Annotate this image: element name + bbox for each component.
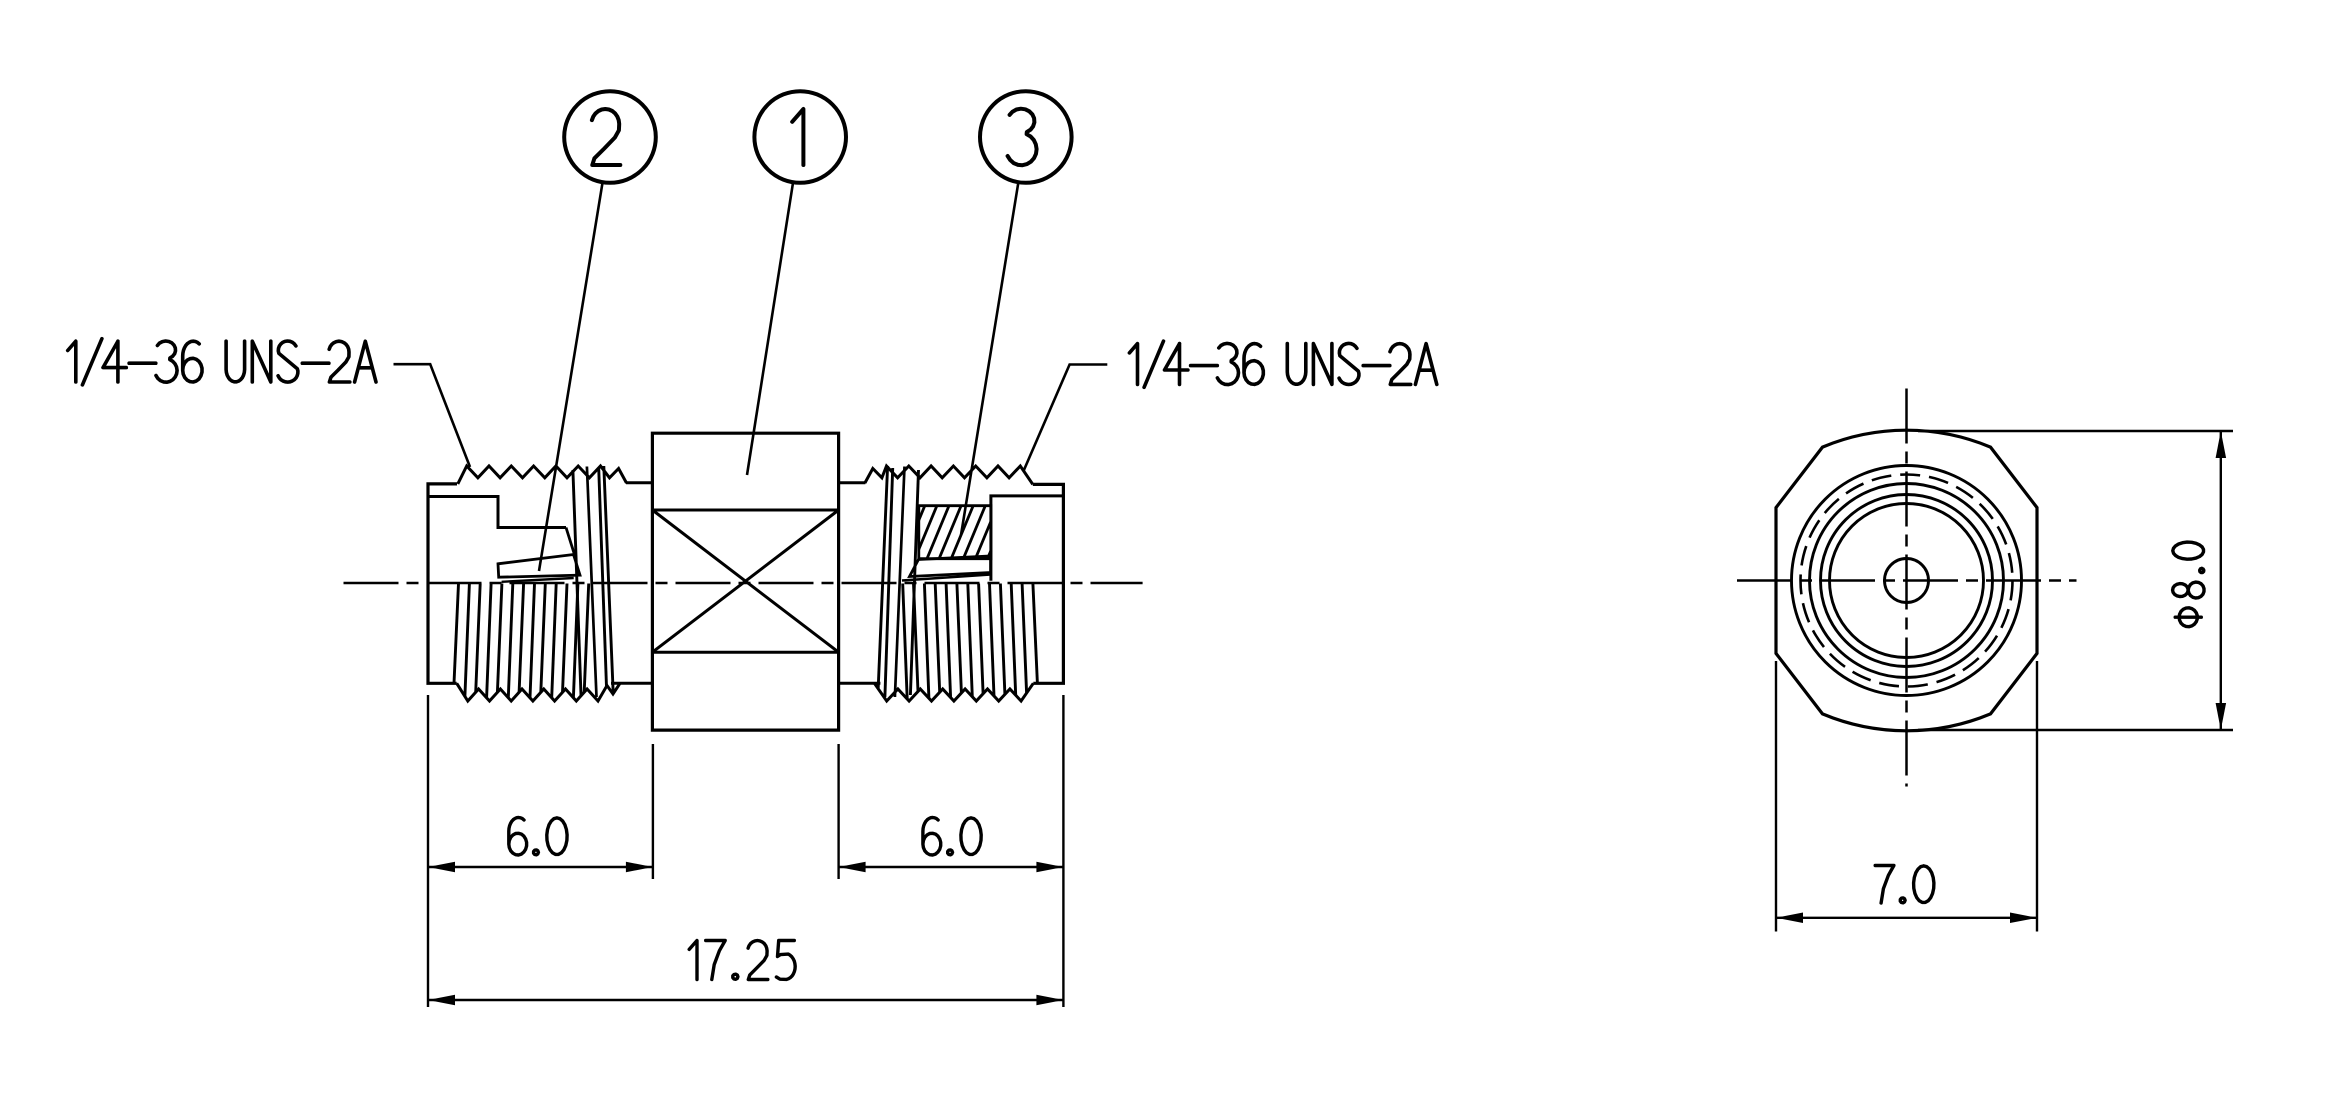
insulator circle	[1830, 504, 1984, 658]
left connector long thread flank lines near shoulder	[573, 466, 613, 697]
hatch of insulator item 3	[919, 506, 991, 559]
right connector thread root zigzag (bottom)	[874, 683, 1033, 701]
centerline of side view (dash-dot)	[344, 582, 1143, 585]
hex flat upper edge	[652, 509, 838, 512]
right connector long thread flank lines near shoulder	[878, 466, 918, 697]
center socket circle	[1885, 559, 1929, 603]
hex knurl diagonal 1	[652, 510, 838, 652]
extension line at block left x=652.4	[652, 744, 654, 879]
balloon callout 2 (circle with item number)	[564, 91, 656, 183]
center contact item 2 (left socket, section)	[498, 555, 580, 578]
dimension 7.0 (across flats)	[1776, 866, 2037, 924]
left label leader	[394, 364, 471, 467]
center hex body item 1 (rectangle)	[652, 433, 838, 730]
left connector internal bore profile (section, upper half)	[428, 497, 566, 528]
hex knurl diagonal 2	[652, 510, 838, 652]
left connector thread flank lines (lower half)	[454, 584, 589, 698]
left connector neck lines to center body	[626, 481, 652, 484]
dimension 17.25 (overall length)	[428, 941, 1063, 1006]
right connector thread flank lines (lower half)	[903, 584, 1038, 700]
leader line from balloon 1	[747, 182, 793, 475]
right connector body outline (right face, top, bottom)	[1033, 484, 1064, 683]
extension line left (7.0)	[1775, 661, 1777, 932]
leader line from balloon 2	[539, 182, 603, 571]
thread minor diameter circle	[1810, 484, 2004, 678]
right connector internal bore step (section, upper half)	[991, 496, 1064, 581]
extension line at block right x=838.6	[837, 744, 839, 879]
hex flat lower edge	[652, 651, 838, 654]
extension line top (dia 8.0)	[1918, 430, 2233, 432]
dimension 6.0 (left thread length)	[428, 818, 653, 873]
counterbore circle	[1821, 495, 1993, 667]
right label leader	[1023, 365, 1107, 472]
right thread label 1/4-36 UNS-2A	[1129, 341, 1436, 387]
end view horizontal centerline	[1737, 579, 2077, 582]
left connector thread runout edge	[566, 528, 575, 557]
right connector external thread crest zigzag (top)	[865, 466, 1033, 484]
center contact bar (right side, section)	[910, 556, 991, 577]
leader line from balloon 3	[961, 182, 1018, 535]
extension line at left face x=428	[427, 695, 429, 1007]
extension line bottom (dia 8.0)	[1918, 729, 2233, 731]
extension line at right face x=1063.4	[1062, 695, 1064, 1007]
thread major diameter circle	[1792, 466, 2022, 696]
left connector thread root zigzag (bottom)	[457, 683, 620, 701]
left connector body outline (left face, top, bottom)	[428, 484, 457, 683]
thread pitch circle (dashed)	[1801, 475, 2013, 687]
right connector neck lines to center body	[839, 481, 866, 484]
end view vertical centerline	[1905, 389, 1908, 787]
left connector external thread crest zigzag (top)	[458, 466, 627, 484]
balloon callout 3 (circle with item number)	[980, 91, 1072, 183]
balloon callout 1 (circle with item number)	[754, 91, 846, 183]
right contact lower edge line	[902, 575, 991, 581]
dimension 6.0 (right thread length)	[839, 818, 1064, 873]
extension line right (7.0)	[2036, 661, 2038, 932]
left contact lower edge line	[502, 578, 574, 582]
left thread label 1/4-36 UNS-2A	[68, 339, 376, 385]
dimension dia 8.0 (height across body)	[2173, 431, 2227, 730]
end view outer profile (round body with wrench flats)	[1776, 430, 2037, 731]
